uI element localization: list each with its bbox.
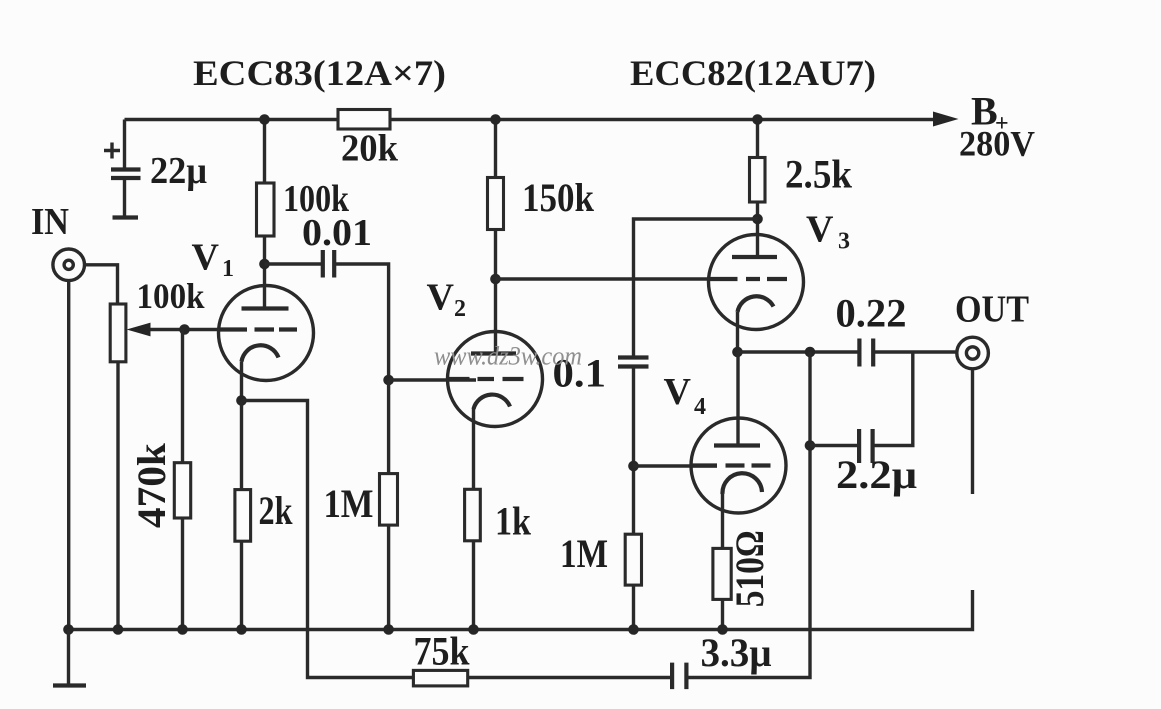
svg-text:2: 2 <box>454 296 466 322</box>
resistor 75k <box>413 670 467 686</box>
wire V4 grid <box>634 464 718 467</box>
ground bar (22u) <box>113 215 139 219</box>
tube V2 envelope <box>448 332 543 427</box>
svg-text:0.22: 0.22 <box>836 291 907 336</box>
svg-text:1k: 1k <box>495 499 532 544</box>
wire V1 cathode lead <box>240 362 243 401</box>
wire 0.01 right lead down to grid node <box>334 264 388 380</box>
resistor 1M (V2 grid) <box>380 474 398 525</box>
V4 grid dashes <box>692 463 771 467</box>
wire 1M branch <box>387 380 390 630</box>
svg-text:510Ω: 510Ω <box>727 530 772 607</box>
wire pot bottom lead <box>116 362 119 630</box>
wire V2 plate to V3 grid <box>496 277 711 280</box>
svg-text:www.dz3w.com: www.dz3w.com <box>434 342 582 371</box>
svg-text:3: 3 <box>838 229 850 255</box>
node V3 plate <box>752 214 763 225</box>
svg-text:1M: 1M <box>324 481 374 526</box>
terminal IN <box>53 249 85 281</box>
wire cathode node to 0.22 <box>738 350 860 353</box>
node rail-2k <box>236 624 247 635</box>
svg-text:470k: 470k <box>129 442 174 528</box>
wire V2 cathode lead <box>472 409 475 630</box>
resistor 1k <box>465 489 481 541</box>
wire V4 cathode lead <box>721 494 724 630</box>
svg-text:20k: 20k <box>341 128 399 170</box>
tube V1 envelope <box>219 286 314 381</box>
tube V3 envelope <box>709 235 804 330</box>
svg-text:2k: 2k <box>259 488 294 533</box>
resistor 20k (in B+ rail) <box>338 110 390 130</box>
wire 2.5k branch <box>756 120 759 258</box>
resistor 510 ohm <box>713 548 731 599</box>
capacitor 0.22 <box>859 339 873 367</box>
capacitor 2.2u <box>859 429 873 463</box>
wire 0.22 to OUT <box>873 350 957 353</box>
node V1 cathode <box>236 395 247 406</box>
resistor 2.5k <box>750 158 766 203</box>
wire 150k branch <box>494 120 497 355</box>
wire 2.2u tap down <box>808 352 811 446</box>
tube V4 envelope <box>691 418 786 513</box>
wire feedback from V1 cathode <box>242 401 673 678</box>
wire 22u top lead <box>123 120 126 170</box>
wire V3 plate to 0.1 <box>634 219 758 357</box>
capacitor 0.1 <box>618 358 649 367</box>
node V2 plate <box>490 274 501 285</box>
svg-text:2.2μ: 2.2μ <box>836 452 917 497</box>
svg-text:280V: 280V <box>959 124 1035 164</box>
V4 cathode hook <box>722 473 762 494</box>
svg-text:V: V <box>806 209 834 251</box>
pot wiper arrow <box>127 323 151 337</box>
wire 0.1 bottom to V4 grid node <box>632 367 635 630</box>
node V4 grid <box>628 461 639 472</box>
V1 grid dashes <box>219 327 297 331</box>
resistor 470k <box>174 463 190 518</box>
node rail-1M V4 <box>628 624 639 635</box>
wire 2.2u right lead up to output <box>873 352 913 446</box>
terminal OUT <box>957 337 989 369</box>
node rail-470k <box>177 624 188 635</box>
capacitor 3.3u <box>672 663 686 690</box>
wire IN to pot <box>85 265 118 304</box>
svg-text:150k: 150k <box>522 175 595 220</box>
svg-text:4: 4 <box>694 394 706 420</box>
wire V2 grid <box>389 378 476 381</box>
resistor 100k (V1 plate) <box>257 183 275 236</box>
svg-text:ECC82(12AU7): ECC82(12AU7) <box>630 53 876 93</box>
svg-text:2.5k: 2.5k <box>785 152 853 197</box>
node 2.2u left <box>805 440 816 451</box>
svg-text:75k: 75k <box>414 629 471 674</box>
node wiper junction <box>179 324 190 335</box>
svg-text:V: V <box>192 237 220 279</box>
V3 plate bar <box>732 255 777 259</box>
wire V3 cathode lead <box>736 312 739 352</box>
wire V4 plate lead <box>736 352 739 446</box>
B+ arrow <box>933 112 959 127</box>
node rail-pot <box>113 624 124 635</box>
V1 plate bar <box>242 306 289 310</box>
wire 2.2u left lead <box>810 444 859 447</box>
node rail-150k <box>490 114 501 125</box>
node V3 cathode <box>732 347 743 358</box>
capacitor 0.01 <box>323 250 334 278</box>
V4 plate bar <box>714 443 760 447</box>
V1 cathode hook <box>242 345 279 361</box>
wire 470k branch <box>181 330 184 630</box>
potentiometer 100k body <box>110 304 126 362</box>
node 0.22 tap <box>805 347 816 358</box>
svg-text:3.3μ: 3.3μ <box>701 630 772 675</box>
wire 22u bottom lead <box>123 178 126 217</box>
svg-text:1M: 1M <box>560 531 608 576</box>
node rail-2.5k <box>752 114 763 125</box>
wire 2k branch <box>240 401 243 630</box>
resistor 150k <box>488 178 504 230</box>
svg-text:100k: 100k <box>137 276 205 316</box>
svg-text:1: 1 <box>222 256 234 282</box>
node V1 plate <box>259 259 270 270</box>
ground symbol <box>67 630 70 685</box>
wire B+ rail <box>125 118 935 121</box>
svg-text:V: V <box>664 371 692 413</box>
plus sign (22u polarity) <box>104 143 120 159</box>
V2 cathode hook <box>474 395 511 409</box>
node rail-1k <box>468 624 479 635</box>
node rail-100k <box>259 114 270 125</box>
svg-text:V: V <box>427 277 455 319</box>
node rail-510 <box>717 624 728 635</box>
capacitor 22u <box>111 170 141 179</box>
V3 cathode hook <box>738 296 774 312</box>
wire 0.01 left lead <box>265 262 323 265</box>
node rail-1M <box>383 624 394 635</box>
wire 3.3u right lead <box>686 446 810 678</box>
svg-text:IN: IN <box>31 201 69 243</box>
node rail-IN <box>63 624 74 635</box>
wire IN down to ground rail <box>67 281 70 630</box>
svg-text:ECC83(12A×7): ECC83(12A×7) <box>193 53 446 93</box>
wire ground rail <box>69 590 973 630</box>
wire 100k plate branch V1 <box>263 120 266 310</box>
resistor 2k <box>235 490 251 542</box>
V3 grid dashes <box>709 277 787 281</box>
svg-text:22μ: 22μ <box>150 150 207 192</box>
svg-text:0.01: 0.01 <box>302 212 372 254</box>
V2 plate bar <box>471 351 516 355</box>
resistor 1M (V4 grid) <box>625 534 641 585</box>
node V2 grid <box>383 375 394 386</box>
wire OUT ground stub (broken) <box>971 369 974 495</box>
svg-text:OUT: OUT <box>955 289 1029 331</box>
V2 grid dashes <box>448 377 524 381</box>
wire pot wiper to V1 grid <box>149 328 247 331</box>
